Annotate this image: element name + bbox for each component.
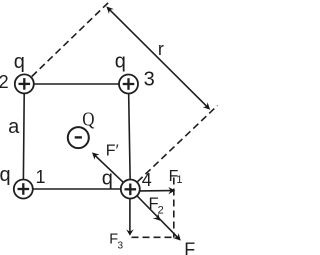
svg-text:q: q <box>115 51 126 73</box>
svg-text:F2: F2 <box>149 195 164 217</box>
charge q3 circle (top-right, positive) <box>119 75 138 94</box>
charge q2 circle (top-left, positive) <box>15 74 34 93</box>
svg-text:F1: F1 <box>169 168 183 186</box>
svg-text:q: q <box>14 51 25 73</box>
force arrow F3 (vertical down) <box>126 189 133 236</box>
force arrow F' (attraction toward Q) <box>92 152 130 189</box>
dashed projection line horizontal from F3 tip <box>132 236 179 238</box>
svg-text:F3: F3 <box>109 232 123 252</box>
force arrow F2 (along diagonal, intermediate head) <box>153 213 161 221</box>
charge q4 circle (bottom-right, positive) <box>121 180 140 199</box>
svg-text:r: r <box>158 39 164 59</box>
dimension arrow r (double-headed) <box>106 6 210 109</box>
svg-text:a: a <box>8 116 20 138</box>
svg-text:F: F <box>184 240 195 255</box>
force arrow F (resultant, diagonal down-right) <box>130 189 181 241</box>
wire square left side (charge 2 to charge 1), length a <box>23 84 24 189</box>
dashed extension line from charge 4 <box>138 106 218 182</box>
wire square top side (charge 2 to charge 3) <box>24 83 128 85</box>
svg-text:q: q <box>102 168 113 190</box>
wire square bottom side (charge 1 to charge 4) <box>23 188 130 190</box>
svg-text:2: 2 <box>0 72 9 92</box>
svg-text:4: 4 <box>142 170 152 190</box>
wire square right side (charge 3 to charge 4) <box>129 84 131 189</box>
svg-text:3: 3 <box>144 68 155 90</box>
svg-text:Q: Q <box>82 108 95 131</box>
force arrow F1 (horizontal right) <box>130 187 175 194</box>
svg-text:q: q <box>0 164 11 186</box>
svg-text:1: 1 <box>36 167 46 187</box>
dashed projection line vertical from F1 tip <box>173 178 175 238</box>
svg-text:F′: F′ <box>106 142 119 159</box>
charge Q circle (center, negative) <box>68 127 89 148</box>
charge q1 circle (bottom-left, positive) <box>14 180 33 199</box>
dashed extension line from charge 2 <box>32 1 111 77</box>
